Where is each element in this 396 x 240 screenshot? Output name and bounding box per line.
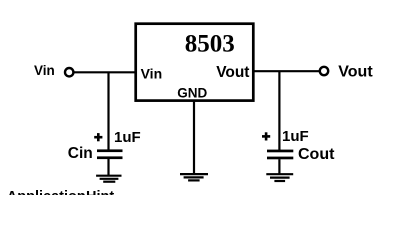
svg-text:Vin: Vin (34, 63, 55, 78)
svg-text:Cout: Cout (298, 146, 335, 163)
svg-text:1uF: 1uF (114, 129, 141, 146)
wire Vin terminal to IC (74, 71, 136, 73)
wire GND pin to ground (193, 101, 195, 175)
svg-text:Hint: Hint (86, 189, 114, 195)
capacitor Cin plates (97, 149, 123, 152)
svg-text:Vout: Vout (216, 64, 249, 81)
svg-text:8503: 8503 (185, 31, 235, 58)
svg-text:1uF: 1uF (282, 128, 309, 145)
wire Cin to ground (107, 159, 109, 176)
wire junction down to Cin (107, 72, 109, 150)
svg-text:Vin: Vin (141, 66, 163, 82)
capacitor Cin plus sign (94, 136, 102, 139)
wire IC Vout to terminal (253, 70, 319, 72)
node Vout terminal circle (320, 67, 328, 75)
svg-text:Vout: Vout (338, 64, 373, 81)
capacitor Cout plus sign (262, 135, 270, 138)
node Vin terminal circle (65, 68, 73, 76)
ground (Cin) (96, 176, 121, 182)
wire junction down to Cout (278, 71, 280, 150)
capacitor Cout plates (267, 150, 293, 153)
svg-text:Cin: Cin (68, 145, 93, 162)
op-amp U1 : regulator IC box 8503 (136, 24, 254, 101)
wire Cout to ground (278, 159, 280, 174)
ground (Cout) (266, 174, 293, 181)
ground (GND pin) (180, 174, 208, 180)
svg-text:Application: Application (7, 189, 86, 195)
svg-text:GND: GND (177, 86, 207, 101)
